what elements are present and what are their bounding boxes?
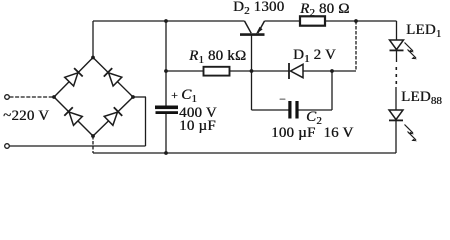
node bridge bottom vertex (91, 134, 95, 138)
diode upper-right of bridge (104, 68, 122, 86)
wire R1 to base node (230, 70, 252, 72)
node bridge right vertex (131, 95, 135, 99)
wire C2 left branch down (251, 71, 253, 110)
node bridge left vertex (52, 95, 56, 99)
wire LED1 to dots stub (396, 51, 398, 63)
node bridge top vertex (91, 56, 95, 60)
wire base node to D1 (252, 70, 290, 72)
wire LED88 to bottom rail (395, 121, 397, 153)
label LED1 (406, 23, 441, 39)
node top rail riser (354, 19, 358, 23)
wire bridge right vertex stub (133, 96, 146, 98)
AC terminal upper (5, 95, 10, 100)
wire C1 branch upper (165, 21, 167, 106)
wire dots to LED88 stub (395, 87, 397, 110)
wire upper AC to bridge left vertex (10, 96, 55, 98)
LED88 (389, 110, 417, 141)
wire LED string top drop (396, 21, 398, 40)
wire bottom rail (93, 152, 396, 154)
LED1 (390, 40, 418, 59)
wire C1 branch lower (165, 114, 167, 153)
label ~220 V (3, 109, 49, 124)
node D1 C2 right (330, 69, 334, 73)
diode D1 (289, 63, 303, 79)
wire bridge top vertical (92, 21, 94, 58)
wire top rail left section (93, 20, 245, 22)
diode lower-right of bridge (104, 107, 122, 125)
diode lower-left of bridge (64, 107, 82, 125)
label D1 2 V (293, 48, 336, 64)
LED string ellipsis dots (396, 67, 398, 84)
label minus C2 (279, 92, 286, 107)
diode upper-left of bridge (65, 68, 83, 86)
wire C2 right lead (299, 109, 333, 111)
label 10 uF (179, 119, 216, 134)
wire lower AC horizontal (10, 145, 146, 147)
resistor R2 (300, 16, 325, 25)
wire base lead (251, 36, 253, 72)
wire right riser to top rail (355, 21, 357, 71)
wire R2 to LED corner (325, 20, 397, 22)
label LED88 (401, 90, 442, 106)
wire emitter to R2 (265, 20, 301, 22)
node C1 bottom (164, 151, 168, 155)
label plus C1 (171, 88, 197, 104)
label R1 80 kohm (189, 49, 246, 65)
label R2 80 ohm (300, 2, 350, 18)
wire C2 right branch up (331, 71, 333, 110)
wire C2 left lead (252, 109, 289, 111)
wire lower AC riser to bridge right (145, 97, 147, 146)
resistor R1 (204, 67, 230, 76)
bridge rectifier diamond (54, 58, 133, 137)
wire D1 to right riser (303, 70, 356, 72)
wire C1 node to R1 (166, 70, 204, 72)
transistor D2 (240, 21, 265, 35)
capacitor C2 (288, 101, 298, 119)
label 400 V (179, 106, 217, 121)
AC terminal lower (5, 144, 10, 149)
node C1 R1 tap (164, 69, 168, 73)
node C1 top (164, 19, 168, 23)
capacitor C1 (155, 106, 178, 115)
label C2 (306, 110, 322, 126)
node base junction (250, 69, 254, 73)
label D2 1300 (233, 0, 284, 16)
label 100 uF 16 V (271, 126, 353, 141)
wire bridge bottom drop (92, 136, 94, 153)
